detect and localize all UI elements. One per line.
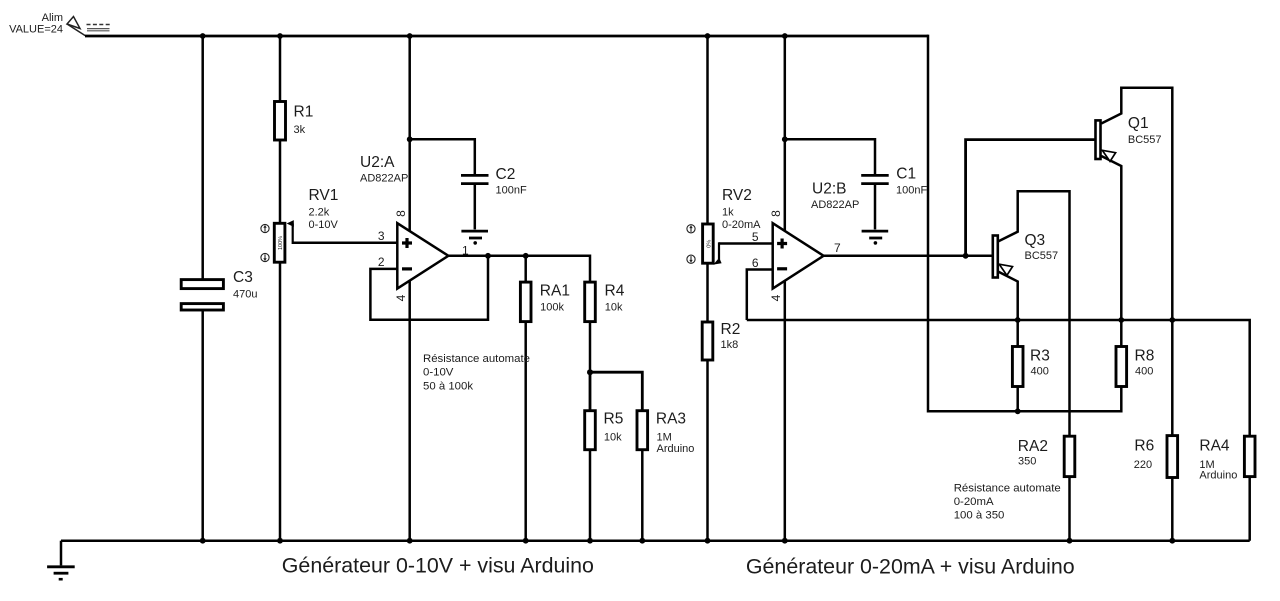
- svg-text:3: 3: [378, 229, 385, 243]
- svg-text:1M: 1M: [657, 431, 672, 443]
- wire U2:A output: [448, 255, 590, 258]
- svg-text:5: 5: [752, 230, 759, 244]
- svg-text:Arduino: Arduino: [1199, 470, 1237, 482]
- wire U2:B output to Q3 base: [824, 255, 993, 258]
- wire RV2 to R2: [706, 263, 709, 322]
- junction dot R3 bottom: [1015, 408, 1021, 414]
- wire RA3 bottom lead: [641, 450, 644, 541]
- svg-text:0-20mA: 0-20mA: [954, 496, 994, 508]
- resistor R3: [1012, 320, 1049, 411]
- annotation resistance automate 0-10V: [423, 353, 530, 392]
- wire R2 bottom lead: [706, 360, 709, 541]
- wire U2:B pin6 feedback to emitter node: [747, 270, 773, 321]
- wire U2:B supply rail pins 8-4: [784, 36, 787, 541]
- svg-text:1k: 1k: [722, 207, 734, 219]
- svg-text:6: 6: [752, 256, 759, 270]
- svg-text:AD822AP: AD822AP: [811, 199, 859, 211]
- svg-text:RA4: RA4: [1199, 438, 1230, 455]
- transistor Q1: [1096, 88, 1173, 320]
- svg-text:0-20mA: 0-20mA: [722, 219, 761, 231]
- capacitor C3: [181, 269, 257, 310]
- wire RV2 wiper to U2:B pin5: [719, 242, 773, 245]
- junction dot C1 tap: [782, 136, 788, 142]
- svg-text:C3: C3: [233, 269, 253, 286]
- svg-text:100nF: 100nF: [896, 185, 927, 197]
- svg-text:R6: R6: [1134, 438, 1154, 455]
- svg-text:220: 220: [1134, 459, 1152, 471]
- svg-text:100%: 100%: [278, 236, 284, 250]
- wire +24V top rail: [85, 35, 928, 38]
- RV2 down arrow indicator: [687, 255, 695, 263]
- svg-text:R5: R5: [604, 411, 624, 428]
- resistor R5: [585, 411, 624, 450]
- svg-text:RA1: RA1: [540, 283, 570, 300]
- junction dots top rail: [200, 33, 788, 39]
- wire emitter node rail y320: [747, 320, 1250, 436]
- wire C3 bottom lead: [201, 310, 204, 541]
- svg-text:RV2: RV2: [722, 187, 752, 204]
- svg-text:Générateur 0-20mA + visu Ardui: Générateur 0-20mA + visu Arduino: [746, 555, 1075, 579]
- potentiometer RV1: [274, 187, 338, 262]
- resistor RA1: [520, 282, 570, 322]
- wire RV1 wiper to U2:A pin3: [293, 242, 398, 245]
- capacitor C1: [861, 166, 927, 230]
- svg-text:4: 4: [394, 294, 408, 301]
- wire R1 top lead: [279, 36, 282, 102]
- svg-text:C1: C1: [896, 166, 916, 183]
- resistor R1: [275, 102, 314, 141]
- resistor R4: [585, 282, 625, 322]
- svg-text:RA3: RA3: [656, 411, 686, 428]
- svg-text:50 à 100k: 50 à 100k: [423, 380, 473, 392]
- junction dot U2:B output node: [963, 253, 969, 259]
- ground main: [47, 541, 75, 580]
- resistor RA4: [1199, 436, 1255, 541]
- svg-text:Q3: Q3: [1025, 232, 1046, 249]
- wire RA1 bottom lead: [524, 322, 527, 541]
- wire R1 to RV1: [279, 140, 282, 223]
- wire U2:A feedback loop: [370, 256, 488, 320]
- wire C3 top lead: [201, 36, 204, 279]
- wire R4 bottom to R5/RA3 node: [589, 322, 592, 373]
- svg-text:Q1: Q1: [1128, 115, 1149, 132]
- wire 0V bottom rail: [61, 539, 1250, 542]
- junction dots emitter rail y320: [1015, 317, 1175, 323]
- svg-text:350: 350: [1018, 456, 1036, 468]
- junction dots U2:A output node: [485, 253, 528, 259]
- svg-text:AD822AP: AD822AP: [360, 173, 408, 185]
- potentiometer RV2: [703, 187, 762, 263]
- svg-text:0%: 0%: [706, 240, 712, 248]
- svg-text:2.2k: 2.2k: [309, 207, 330, 219]
- wire R5 top lead: [589, 372, 592, 411]
- RV1 up arrow indicator: [261, 224, 269, 232]
- svg-text:BC557: BC557: [1128, 134, 1162, 146]
- svg-text:400: 400: [1031, 366, 1049, 378]
- wire R5 bottom lead: [589, 450, 592, 541]
- svg-text:RA2: RA2: [1018, 438, 1048, 455]
- RV1 down arrow indicator: [261, 253, 269, 261]
- svg-text:Générateur 0-10V + visu Arduin: Générateur 0-10V + visu Arduino: [282, 553, 594, 577]
- svg-text:7: 7: [834, 241, 841, 255]
- power symbol Alim VALUE=24: [9, 12, 110, 36]
- svg-text:R3: R3: [1030, 347, 1050, 364]
- annotation resistance automate 0-20mA: [954, 482, 1061, 521]
- svg-text:BC557: BC557: [1025, 250, 1059, 262]
- RV2 up arrow indicator: [687, 225, 695, 233]
- svg-text:100 à 350: 100 à 350: [954, 509, 1005, 521]
- svg-text:Alim: Alim: [42, 12, 63, 24]
- capacitor C2: [461, 166, 527, 229]
- wire C1 tap from pin8 rail: [785, 139, 875, 174]
- svg-text:0-10V: 0-10V: [309, 219, 339, 231]
- svg-text:Résistance automate: Résistance automate: [954, 482, 1061, 494]
- resistor RA2: [1018, 436, 1075, 541]
- resistor R8: [1116, 320, 1154, 387]
- resistor R2: [702, 321, 740, 360]
- op-amp U2:B: [773, 181, 860, 289]
- svg-text:Résistance automate: Résistance automate: [423, 353, 530, 365]
- junction dot C2 tap: [407, 136, 413, 142]
- svg-text:Arduino: Arduino: [657, 443, 695, 455]
- ground under C2: [461, 231, 488, 245]
- svg-text:0-10V: 0-10V: [423, 367, 454, 379]
- transistor Q3: [993, 191, 1070, 436]
- resistor RA3: [637, 411, 694, 456]
- svg-text:8: 8: [394, 210, 408, 217]
- junction dots bottom rail: [200, 538, 1175, 544]
- svg-text:10k: 10k: [604, 431, 622, 443]
- svg-text:U2:B: U2:B: [812, 181, 846, 198]
- wire RV2 top lead: [706, 36, 709, 224]
- svg-text:VALUE=24: VALUE=24: [9, 24, 63, 36]
- svg-text:100k: 100k: [540, 302, 564, 314]
- svg-text:100nF: 100nF: [496, 185, 527, 197]
- resistor R6: [1134, 320, 1178, 541]
- svg-text:R1: R1: [294, 104, 314, 121]
- svg-text:3k: 3k: [294, 124, 306, 136]
- svg-text:RV1: RV1: [309, 187, 339, 204]
- ground under C1: [862, 231, 889, 245]
- junction dot R4/R5/RA3 node: [587, 369, 593, 375]
- wire RA1 top lead: [524, 256, 527, 282]
- svg-text:1k8: 1k8: [721, 339, 739, 351]
- wire +24V right drop to R3/R8 bottom row: [928, 35, 1121, 412]
- wire U2:A supply rail pins 8-4: [408, 36, 411, 541]
- svg-text:R8: R8: [1135, 347, 1155, 364]
- svg-text:470u: 470u: [233, 289, 257, 301]
- svg-text:R2: R2: [721, 321, 741, 338]
- svg-text:C2: C2: [496, 166, 516, 183]
- svg-text:2: 2: [378, 255, 385, 269]
- svg-text:U2:A: U2:A: [360, 154, 395, 171]
- svg-text:400: 400: [1135, 366, 1153, 378]
- svg-text:10k: 10k: [605, 302, 623, 314]
- wire C2 tap from pin8 rail: [410, 139, 475, 174]
- op-amp U2:A: [360, 154, 448, 289]
- wire Q1 base net: [966, 140, 1096, 256]
- svg-text:4: 4: [769, 294, 783, 301]
- wire node to RA3: [590, 372, 642, 411]
- wire RV1 bottom lead to 0V rail: [279, 262, 282, 541]
- svg-text:8: 8: [769, 210, 783, 217]
- svg-text:R4: R4: [605, 283, 625, 300]
- wire R4 top lead: [589, 255, 592, 283]
